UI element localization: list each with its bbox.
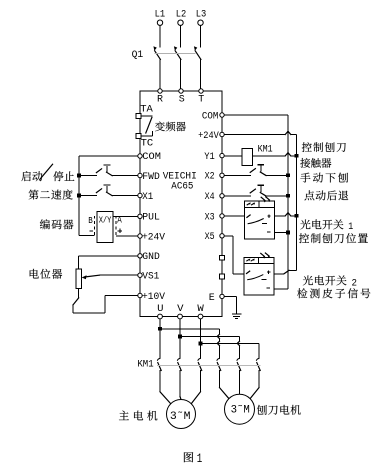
wire pole2 to M1	[180, 370, 181, 400]
pot wiper to VS1	[82, 275, 138, 279]
svg-text:L1: L1	[155, 9, 166, 21]
wire branch2 down	[237, 336, 239, 358]
wire +24V rail	[224, 131, 296, 270]
terminal VS1	[138, 271, 160, 283]
label 手动下刨	[300, 173, 348, 183]
terminal V	[177, 303, 184, 319]
svg-text:+24V: +24V	[198, 130, 219, 142]
wire COM right rail	[224, 115, 288, 289]
encoder lead B	[88, 216, 94, 235]
svg-text:B: B	[88, 216, 93, 226]
label 光电开关2	[303, 275, 357, 289]
wire U down	[159, 319, 161, 359]
node L3	[196, 9, 207, 26]
terminal COM right	[202, 110, 224, 122]
terminal +10V	[138, 291, 166, 303]
terminal aux2	[220, 274, 225, 279]
junction V tap	[178, 335, 182, 339]
node L2	[176, 9, 187, 26]
label VEICHI AC65	[163, 170, 197, 192]
svg-text:AC65: AC65	[171, 181, 193, 193]
svg-text:TC: TC	[141, 138, 154, 150]
wire encoder- to rail	[79, 234, 95, 236]
KM1 contact pole1	[157, 358, 161, 370]
svg-text:COM: COM	[202, 110, 218, 122]
inverter U1 VEICHI AC65 box	[140, 91, 222, 317]
wire pole3 to M1	[191, 370, 200, 404]
KM1 contact pole4	[217, 358, 221, 370]
switch S2 second-speed	[79, 185, 138, 196]
node L1	[155, 9, 166, 26]
label 电位器	[30, 269, 62, 279]
potentiometer RP1	[76, 269, 81, 289]
caption 图1	[184, 451, 202, 466]
wire V tap across	[180, 335, 240, 337]
encoder minus	[89, 230, 93, 232]
terminal W	[197, 303, 204, 319]
svg-text:Y1: Y1	[204, 151, 215, 163]
switch S3 manual-down	[224, 165, 290, 177]
wire U tap across	[160, 328, 220, 330]
label 点动后退	[304, 190, 348, 200]
svg-text:2: 2	[352, 277, 358, 289]
label 变频器	[155, 122, 186, 132]
svg-text:X2: X2	[205, 171, 215, 183]
label 控制刨刀位置	[299, 233, 368, 243]
switch S1 start-stop	[79, 165, 138, 176]
photo switch B2	[244, 253, 274, 296]
wire X5 to sensor2	[224, 236, 244, 274]
terminal COM left	[138, 151, 161, 163]
label 启动/停止	[21, 164, 74, 181]
terminal X1	[138, 191, 154, 203]
svg-text:3˜M: 3˜M	[231, 405, 250, 417]
wire encoder+ to 24V	[116, 235, 138, 237]
svg-text:L2: L2	[176, 9, 187, 21]
wire pot-top to GND	[79, 256, 138, 269]
svg-text:E: E	[209, 292, 215, 304]
svg-text:VS1: VS1	[142, 271, 159, 283]
svg-text:KM1: KM1	[258, 144, 273, 155]
switch S4 jog-back	[224, 185, 290, 197]
KM1 contact pole6	[256, 358, 260, 370]
label 编码器	[40, 219, 74, 229]
svg-text:3˜M: 3˜M	[170, 411, 191, 423]
wire pole6 to M2	[250, 370, 259, 399]
terminal aux1	[220, 255, 225, 260]
wire sensor1+ to 24V	[275, 213, 299, 218]
terminal FWD	[138, 171, 160, 183]
junction rail-FWD	[77, 174, 81, 178]
label 检测皮子信号	[297, 288, 370, 298]
wire sensor2+ to 24V	[274, 270, 296, 274]
terminal X5	[205, 231, 225, 243]
wire pole5 to M2	[239, 370, 241, 394]
svg-text:U: U	[157, 303, 163, 315]
encoder lead A	[116, 215, 122, 235]
wire W tap across	[201, 342, 260, 344]
svg-text:GND: GND	[142, 251, 160, 263]
motor M1 main	[167, 400, 196, 429]
relay contact TA-TC	[141, 116, 152, 136]
label 主电机	[119, 411, 157, 421]
junction rail-X1	[77, 194, 81, 198]
terminal Y1	[204, 151, 224, 163]
motor M2 planer	[225, 394, 255, 424]
svg-text:+10V: +10V	[142, 291, 166, 303]
KM1 contact pole5	[237, 358, 241, 370]
svg-text:T: T	[198, 94, 204, 106]
terminal X2	[205, 171, 225, 183]
svg-text:W: W	[197, 303, 204, 315]
circuit breaker Q1	[132, 46, 201, 88]
terminal +24V left	[138, 231, 166, 243]
wire V down	[179, 319, 181, 359]
wire encoder A to PUL	[113, 215, 138, 217]
svg-text:KM1: KM1	[137, 358, 153, 370]
wire sensor2- to COM	[274, 288, 288, 290]
terminal S	[179, 89, 185, 106]
wire pole1 to M1	[160, 370, 171, 404]
terminal PUL	[138, 212, 160, 224]
svg-text:V: V	[177, 303, 184, 315]
terminal TC	[136, 134, 153, 150]
terminal +24V right	[198, 130, 224, 142]
svg-text:X/Y: X/Y	[99, 215, 112, 226]
encoder plus	[118, 229, 122, 233]
svg-text:X4: X4	[205, 191, 215, 203]
KM1 contact pole2	[177, 358, 181, 370]
wire L3 to Q1	[200, 25, 202, 47]
svg-text:FWD: FWD	[142, 171, 160, 183]
svg-text:L3: L3	[196, 9, 207, 21]
svg-text:1: 1	[348, 221, 353, 233]
wire E to ground	[224, 296, 236, 313]
junction U tap	[158, 327, 162, 331]
terminal X4	[205, 191, 225, 203]
svg-text:A: A	[117, 215, 122, 225]
terminal T	[198, 89, 204, 106]
contactor KM1 label	[137, 358, 153, 370]
terminal U	[157, 303, 163, 319]
svg-text:R: R	[157, 94, 164, 106]
wire L2 to Q1	[180, 25, 182, 47]
wire X3 to sensor1	[224, 215, 244, 217]
wire pole4 to M2	[220, 370, 229, 399]
svg-text:X3: X3	[205, 211, 215, 223]
terminal GND	[138, 251, 160, 263]
label 接触器	[300, 158, 331, 168]
svg-text:1: 1	[197, 451, 203, 466]
junction W tap	[199, 342, 203, 346]
label 控制刨刀	[302, 142, 346, 152]
terminal X3	[205, 211, 225, 223]
KM1 contact pole3	[198, 358, 202, 370]
terminal TA	[136, 104, 153, 119]
ground	[232, 314, 241, 319]
wire COM left rail	[79, 156, 138, 235]
Q1 linkage	[155, 53, 196, 55]
wire pot-bottom to +10V	[73, 289, 138, 313]
svg-text:COM: COM	[142, 151, 161, 163]
svg-text:TA: TA	[140, 104, 153, 116]
terminal E	[209, 292, 224, 304]
label 光电开关1	[300, 219, 353, 233]
label 刨刀电机	[257, 405, 301, 415]
terminal R	[157, 89, 164, 106]
wire W down	[200, 319, 202, 359]
svg-text:X1: X1	[142, 191, 153, 203]
wire L1 to Q1	[159, 25, 161, 47]
wire sensor1- to COM	[275, 231, 290, 235]
svg-text:PUL: PUL	[142, 212, 160, 224]
svg-text:Q1: Q1	[132, 49, 144, 61]
wire branch1 down	[217, 329, 219, 359]
photo switch B1	[245, 197, 275, 240]
label 第二速度	[29, 190, 73, 200]
encoder X/Y box	[97, 211, 113, 242]
wire branch3 down	[258, 343, 260, 358]
KM1 linkage	[157, 365, 261, 367]
contactor coil KM1	[224, 144, 298, 165]
svg-text:X5: X5	[205, 231, 215, 243]
svg-text:S: S	[179, 94, 185, 106]
svg-text:+24V: +24V	[142, 231, 166, 243]
